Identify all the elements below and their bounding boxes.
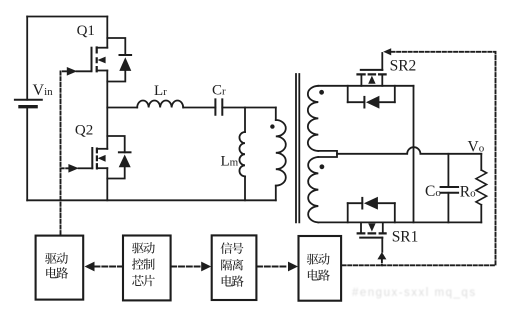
- wire left rail (bottom): [26, 107, 28, 201]
- svg-text:Q2: Q2: [75, 123, 93, 139]
- center tap stubs: [318, 151, 337, 157]
- svg-text:SR2: SR2: [390, 58, 417, 75]
- primary polarity dot: [270, 124, 274, 128]
- wire top rail: [27, 16, 107, 18]
- box1 text: 驱动/电路: [45, 252, 68, 278]
- transistor Q1: [77, 46, 108, 72]
- box3 text: 信号/隔离/电路: [221, 242, 244, 286]
- capacitor Cr: [215, 99, 222, 114]
- svg-text:Cr: Cr: [212, 83, 226, 99]
- wire Q2 source to bottom rail: [106, 168, 108, 200]
- body diode of SR1: [348, 197, 395, 223]
- transistor SR2: [356, 53, 386, 86]
- body diode of Q1: [107, 38, 131, 82]
- center tap rail with crossover hop: [337, 147, 481, 154]
- battery Vin: [15, 100, 42, 107]
- svg-text:#engux-sxxl mq_qs: #engux-sxxl mq_qs: [352, 287, 477, 299]
- wire Q1 drain from top rail: [106, 17, 108, 48]
- secondary bottom winding dot: [320, 164, 325, 169]
- box1 drive circuit: [36, 236, 84, 300]
- SR1 source/drain lead and output bottom rail: [318, 221, 481, 223]
- dashed line SR2 gate to secondary drive loop: [342, 52, 496, 265]
- dashed drive line to Q1/Q2 gates: [61, 71, 68, 235]
- dashed arrow box2 to box1: [85, 262, 123, 272]
- wire Q1 source to Q2 drain (midpoint node): [106, 71, 108, 149]
- wire SR2 drain down to output minus rail: [413, 86, 415, 223]
- svg-text:Co: Co: [425, 183, 441, 200]
- svg-text:Q1: Q1: [77, 23, 95, 39]
- SR2 source/drain lead: [318, 85, 413, 87]
- svg-text:Lm: Lm: [221, 154, 239, 170]
- svg-text:Vo: Vo: [468, 138, 485, 155]
- body diode of SR2: [348, 86, 395, 109]
- svg-text:Vin: Vin: [33, 82, 54, 99]
- box2 text: 驱动/控制/芯片: [132, 242, 155, 286]
- box3 signal isolation circuit: [212, 235, 257, 300]
- transformer core: [296, 74, 299, 222]
- body diode of Q2: [107, 136, 130, 179]
- wire bottom rail: [27, 199, 276, 201]
- capacitor Co: [441, 154, 459, 223]
- gate arrow into Q1: [67, 67, 77, 76]
- transformer primary winding: [276, 108, 286, 201]
- gate arrow into SR1: [377, 252, 386, 259]
- svg-text:Lr: Lr: [154, 83, 167, 99]
- gate arrow into SR2: [383, 48, 391, 55]
- box4 text: 驱动/电路: [307, 253, 330, 281]
- wire midpoint node to Lr: [107, 107, 137, 109]
- dashed arrow box2 to box3: [171, 262, 211, 272]
- svg-text:Ro: Ro: [460, 184, 476, 201]
- transistor Q2: [79, 148, 108, 170]
- secondary top winding: [308, 86, 318, 151]
- transistor SR1: [357, 222, 387, 251]
- gate arrow into Q2: [68, 164, 78, 173]
- box2 drive control chip: [123, 236, 171, 301]
- resistor Ro: [476, 154, 487, 223]
- secondary bottom winding: [308, 157, 318, 222]
- secondary top winding dot: [319, 90, 324, 95]
- inductor Lm: [239, 108, 245, 201]
- box4 drive circuit: [299, 236, 342, 301]
- dashed arrow box3 to box4: [257, 262, 298, 272]
- inductor Lr: [137, 101, 183, 108]
- wire Lr to Cr: [183, 107, 215, 109]
- wire left rail (top): [26, 17, 28, 100]
- svg-text:SR1: SR1: [392, 229, 419, 246]
- wire Cr to primary: [222, 107, 275, 109]
